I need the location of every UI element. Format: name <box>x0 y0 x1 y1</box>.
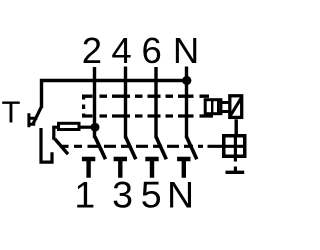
toroid cross horizontal <box>222 145 247 148</box>
wire test circuit top <box>42 81 187 109</box>
pole 3 fixed contact T <box>145 159 158 178</box>
trip linkage dashed line <box>62 145 203 148</box>
wire test button lower terminal <box>41 128 52 162</box>
svg-text:N: N <box>167 174 194 216</box>
mechanism linkage lower rail <box>82 114 213 117</box>
node N test tap <box>182 76 191 85</box>
wire relay links <box>221 103 229 112</box>
svg-text:2: 2 <box>82 30 102 71</box>
svg-text:T: T <box>2 95 21 130</box>
toroid sensor square <box>224 136 245 157</box>
pole 2 contact blade <box>126 137 136 159</box>
pole 2 fixed contact T <box>114 159 127 178</box>
wire relay to toroid <box>234 119 237 134</box>
pole N contact blade <box>187 137 197 159</box>
wire pole 6 vertical <box>154 67 157 138</box>
pole 1 fixed contact T <box>82 159 95 178</box>
wire toroid left lead <box>208 145 225 148</box>
trip relay winding box <box>205 100 221 114</box>
mechanism linkage dashed box left edge <box>82 95 85 118</box>
trip relay release box U1 <box>230 96 242 118</box>
trip relay diagonal <box>230 97 242 116</box>
pole N fixed contact T <box>177 159 190 178</box>
toroid cross vertical <box>234 134 237 161</box>
svg-text:3: 3 <box>112 174 133 216</box>
svg-text:6: 6 <box>141 30 161 71</box>
aux test contact blade <box>55 139 68 154</box>
mechanism linkage upper rail <box>82 95 209 98</box>
wire pole 4 vertical <box>124 67 127 139</box>
resistor RT <box>59 123 80 129</box>
toroid end bar <box>226 171 245 174</box>
wire resistor right lead <box>79 126 94 129</box>
wire pole 2 vertical <box>93 67 96 138</box>
wire resistor left lead <box>54 127 59 140</box>
trip relay winding bars <box>212 101 218 114</box>
svg-text:1: 1 <box>74 174 95 216</box>
test button actuator <box>29 113 37 127</box>
svg-text:4: 4 <box>111 30 131 71</box>
node pole 1 test tap <box>91 123 100 132</box>
svg-text:5: 5 <box>141 174 162 216</box>
svg-text:N: N <box>173 30 199 71</box>
test button contact blade <box>33 107 42 125</box>
pole 3 contact blade <box>156 137 166 159</box>
pole 1 contact blade <box>95 137 106 159</box>
toroid lower dash <box>234 167 237 172</box>
wire pole N vertical <box>185 67 188 139</box>
